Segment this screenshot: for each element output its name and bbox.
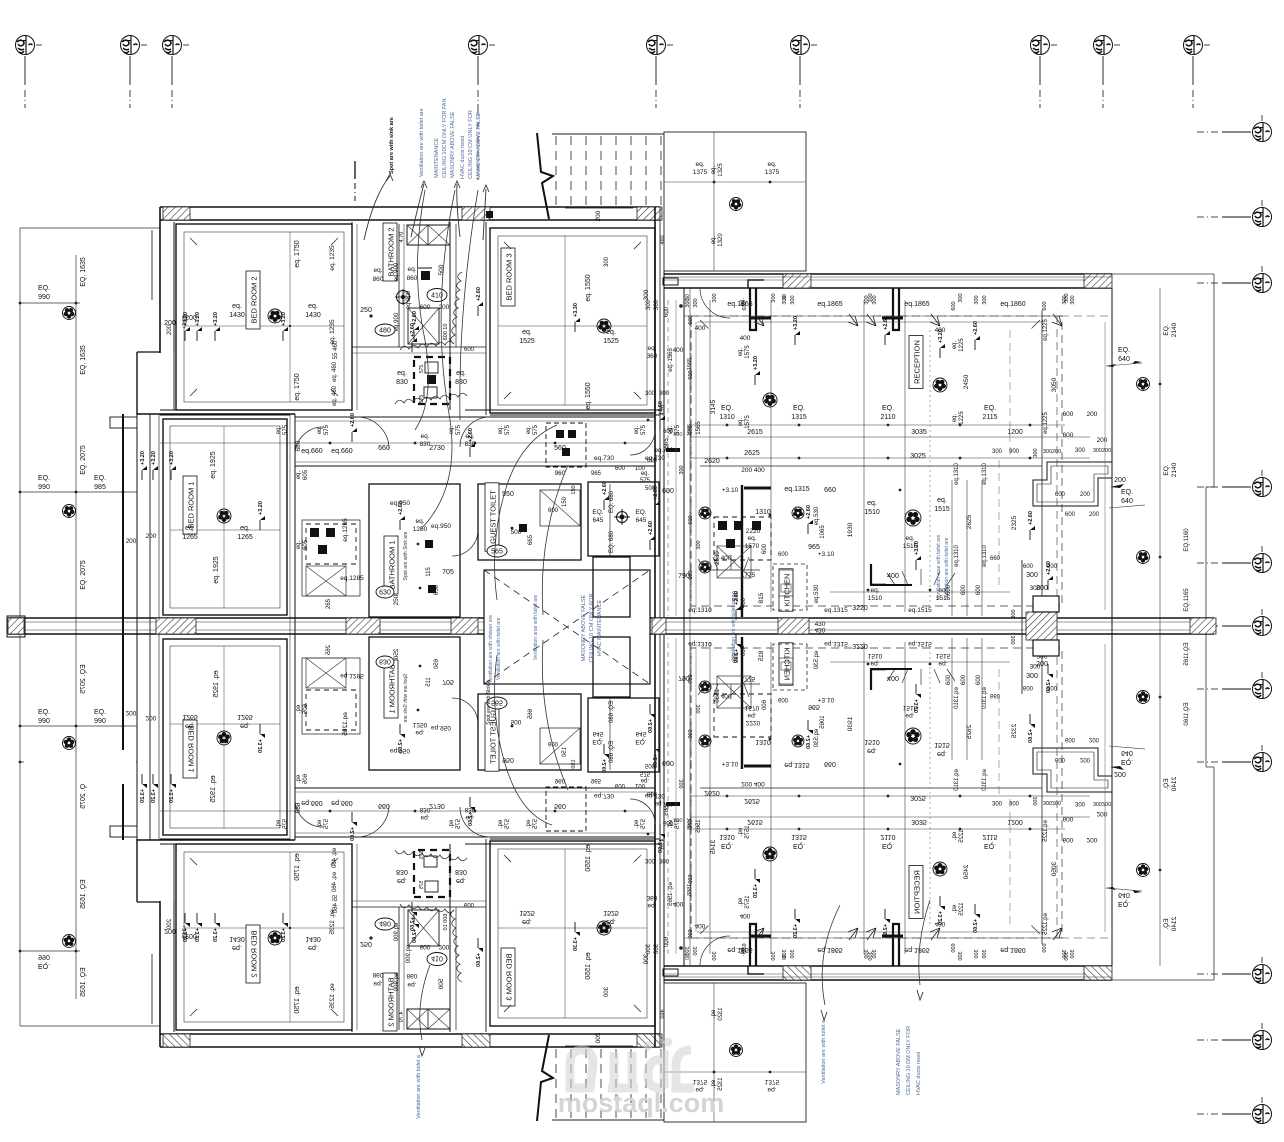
svg-text:300: 300 xyxy=(790,295,796,304)
svg-text:600: 600 xyxy=(946,584,952,595)
svg-text:eq.1865: eq.1865 xyxy=(904,301,929,308)
svg-text:+2.60: +2.60 xyxy=(476,287,482,301)
svg-text:eq.: eq. xyxy=(867,500,877,507)
svg-text:200: 200 xyxy=(1080,492,1091,498)
svg-text:600: 600 xyxy=(420,304,431,311)
svg-text:1515: 1515 xyxy=(934,506,950,513)
svg-text:eq.660: eq.660 xyxy=(301,448,323,455)
svg-text:eq.1315: eq.1315 xyxy=(784,486,809,493)
svg-text:eq.530: eq.530 xyxy=(814,506,820,525)
svg-text:+2.60: +2.60 xyxy=(648,521,654,535)
svg-text:300: 300 xyxy=(982,295,988,304)
svg-text:Ventilation are with toilet a: Ventilation are with toilet a xyxy=(821,1019,827,1084)
svg-text:300: 300 xyxy=(685,298,691,307)
svg-text:2625: 2625 xyxy=(744,450,760,457)
svg-text:eq.: eq. xyxy=(747,535,756,542)
svg-text:1265: 1265 xyxy=(237,534,253,541)
svg-text:990: 990 xyxy=(38,718,50,725)
svg-text:Ventilation are with toilet a: Ventilation are with toilet a xyxy=(416,1054,422,1119)
svg-text:660: 660 xyxy=(990,556,1001,562)
svg-text:+2.60: +2.60 xyxy=(1028,511,1034,525)
svg-text:+2.60: +2.60 xyxy=(973,321,979,335)
svg-text:EQ.: EQ. xyxy=(38,285,50,292)
svg-text:eq. 1925: eq. 1925 xyxy=(210,451,217,478)
svg-text:KITCHEN: KITCHEN xyxy=(783,574,792,607)
svg-text:+2.60: +2.60 xyxy=(410,323,416,337)
svg-text:600: 600 xyxy=(688,515,694,524)
svg-text:eq.: eq. xyxy=(498,425,504,434)
svg-text:EQ.: EQ. xyxy=(1163,324,1170,335)
svg-text:eq.: eq. xyxy=(937,497,947,504)
svg-text:EQ.: EQ. xyxy=(721,405,733,412)
svg-text:eq.1515: eq.1515 xyxy=(908,607,932,614)
svg-text:eq.1310: eq.1310 xyxy=(982,545,988,567)
svg-text:EQ.: EQ. xyxy=(793,405,805,412)
svg-text:250: 250 xyxy=(360,307,372,314)
svg-text:300: 300 xyxy=(992,449,1003,455)
svg-text:600: 600 xyxy=(688,425,694,434)
svg-text:eq.730: eq.730 xyxy=(655,448,674,454)
svg-text:200 400: 200 400 xyxy=(741,467,765,474)
svg-text:+2.60: +2.60 xyxy=(1046,561,1052,575)
svg-text:1430: 1430 xyxy=(305,312,321,319)
svg-text:645: 645 xyxy=(593,517,604,524)
svg-text:eq.: eq. xyxy=(232,303,242,310)
svg-text:600: 600 xyxy=(688,370,694,379)
svg-text:eq.1225: eq.1225 xyxy=(1043,319,1049,341)
svg-text:eq.: eq. xyxy=(905,535,914,542)
svg-text:300: 300 xyxy=(872,295,878,304)
svg-text:EQ. 2075: EQ. 2075 xyxy=(80,560,87,590)
svg-text:1510: 1510 xyxy=(868,595,883,602)
svg-text:EQ. 680: EQ. 680 xyxy=(609,530,615,553)
svg-text:eq.: eq. xyxy=(767,161,776,168)
svg-text:EQ. 680: EQ. 680 xyxy=(609,490,615,513)
svg-text:+2.60: +2.60 xyxy=(602,481,608,495)
svg-text:300200: 300200 xyxy=(1043,449,1061,455)
svg-text:1200: 1200 xyxy=(1007,429,1023,436)
svg-text:CEILING 10CM ONLY FOR FAN: CEILING 10CM ONLY FOR FAN xyxy=(442,98,448,178)
svg-text:EQ. 2075: EQ. 2075 xyxy=(80,445,87,475)
svg-text:1320: 1320 xyxy=(718,233,724,247)
svg-text:eq. 460: eq. 460 xyxy=(332,361,338,382)
svg-text:600: 600 xyxy=(976,674,982,685)
svg-text:200: 200 xyxy=(1087,411,1098,418)
svg-text:eq.: eq. xyxy=(240,525,250,532)
svg-text:+3.10: +3.10 xyxy=(722,487,739,494)
svg-text:2620: 2620 xyxy=(704,458,720,465)
svg-text:eq.: eq. xyxy=(526,425,532,434)
svg-text:1565: 1565 xyxy=(696,421,702,435)
svg-text:300: 300 xyxy=(604,256,610,267)
svg-text:575: 575 xyxy=(505,424,511,435)
svg-text:990: 990 xyxy=(38,484,50,491)
svg-text:HVAC MAINTENANCE: HVAC MAINTENANCE xyxy=(597,599,603,656)
svg-text:300: 300 xyxy=(654,299,660,310)
svg-text:eq.900: eq.900 xyxy=(394,262,400,281)
svg-text:1310: 1310 xyxy=(719,414,735,421)
svg-text:200: 200 xyxy=(439,304,450,311)
svg-text:+2.60: +2.60 xyxy=(412,311,418,325)
svg-text:2450: 2450 xyxy=(963,374,970,389)
svg-text:660: 660 xyxy=(824,487,836,494)
svg-text:eq.1310: eq.1310 xyxy=(954,545,960,567)
svg-text:600: 600 xyxy=(688,315,694,324)
svg-text:eq.: eq. xyxy=(456,370,466,377)
svg-text:Spot are with sink are: Spot are with sink are xyxy=(389,117,395,174)
svg-text:eq.: eq. xyxy=(185,525,195,532)
svg-text:300: 300 xyxy=(693,298,699,307)
svg-text:2140: 2140 xyxy=(1171,462,1178,477)
svg-text:1575: 1575 xyxy=(745,415,751,429)
svg-text:+3.20: +3.20 xyxy=(281,312,287,326)
svg-text:300: 300 xyxy=(1070,295,1076,304)
svg-text:600 10: 600 10 xyxy=(443,324,449,341)
svg-text:EQ.: EQ. xyxy=(1163,464,1170,475)
svg-text:600: 600 xyxy=(961,674,967,685)
svg-text:200: 200 xyxy=(167,324,173,335)
svg-text:200: 200 xyxy=(1114,477,1126,484)
svg-text:eq. 1750: eq. 1750 xyxy=(294,373,301,400)
svg-text:150: 150 xyxy=(562,496,568,507)
svg-text:265: 265 xyxy=(326,598,332,609)
svg-text:575: 575 xyxy=(324,424,330,435)
svg-text:1225: 1225 xyxy=(959,411,965,425)
svg-text:eq.1310: eq.1310 xyxy=(982,463,988,485)
svg-text:2615: 2615 xyxy=(747,429,763,436)
svg-text:eq.: eq. xyxy=(308,303,318,310)
svg-text:MASONRY ABOVE FALSE: MASONRY ABOVE FALSE xyxy=(476,112,482,179)
svg-text:EQ.: EQ. xyxy=(635,509,646,516)
svg-text:eq.: eq. xyxy=(373,267,382,274)
svg-text:EQ.: EQ. xyxy=(38,709,50,716)
svg-text:605: 605 xyxy=(303,469,309,480)
svg-text:EQ.: EQ. xyxy=(1118,347,1130,354)
svg-text:300: 300 xyxy=(1011,609,1017,618)
svg-text:360: 360 xyxy=(647,353,658,360)
svg-text:1515: 1515 xyxy=(903,543,918,550)
svg-text:200: 200 xyxy=(1089,512,1100,518)
svg-text:460: 460 xyxy=(660,235,666,244)
svg-text:4.70: 4.70 xyxy=(399,232,405,243)
svg-text:MASONRY ABOVE FALSE: MASONRY ABOVE FALSE xyxy=(581,594,587,661)
svg-text:3035: 3035 xyxy=(911,429,927,436)
svg-text:eq.: eq. xyxy=(738,347,744,356)
svg-text:600: 600 xyxy=(946,674,952,685)
svg-text:600: 600 xyxy=(688,570,694,579)
svg-text:3145: 3145 xyxy=(710,399,717,414)
svg-text:300: 300 xyxy=(646,299,652,310)
svg-text:600: 600 xyxy=(664,306,670,317)
svg-text:eq.: eq. xyxy=(407,266,416,273)
svg-text:900: 900 xyxy=(1009,449,1020,455)
svg-text:eq.: eq. xyxy=(522,329,532,336)
svg-text:eq.: eq. xyxy=(952,340,958,349)
svg-text:+3.10: +3.10 xyxy=(818,551,835,558)
svg-text:+2.60: +2.60 xyxy=(398,501,404,515)
svg-text:eq.: eq. xyxy=(420,433,429,440)
svg-text:EQ.1160: EQ.1160 xyxy=(1184,528,1190,552)
svg-text:815: 815 xyxy=(758,592,765,603)
svg-text:565: 565 xyxy=(491,549,503,556)
svg-text:400: 400 xyxy=(695,325,706,332)
svg-text:EQ.: EQ. xyxy=(592,509,603,516)
svg-text:640: 640 xyxy=(1121,498,1133,505)
svg-text:eq.: eq. xyxy=(952,413,958,422)
svg-text:eq.1225: eq.1225 xyxy=(1043,412,1049,434)
svg-text:MAINTENANCE: MAINTENANCE xyxy=(434,138,440,178)
svg-text:640: 640 xyxy=(1118,356,1130,363)
svg-text:+3.20: +3.20 xyxy=(213,312,219,326)
svg-text:eq.: eq. xyxy=(296,470,302,479)
svg-text:115: 115 xyxy=(426,567,432,577)
svg-text:990: 990 xyxy=(94,718,106,725)
svg-text:eq.: eq. xyxy=(738,417,744,426)
svg-text:eq.: eq. xyxy=(296,540,302,549)
svg-text:575: 575 xyxy=(641,424,647,435)
svg-text:BATHROOM 1: BATHROOM 1 xyxy=(388,540,397,589)
svg-text:2140: 2140 xyxy=(1171,322,1178,337)
svg-text:Ventilation are with toilet ar: Ventilation are with toilet are xyxy=(496,617,502,680)
svg-text:eq.: eq. xyxy=(449,425,455,434)
svg-text:eq.1310: eq.1310 xyxy=(954,463,960,485)
svg-text:300: 300 xyxy=(771,293,777,302)
svg-text:+3.20: +3.20 xyxy=(753,356,759,370)
svg-text:EQ.1165: EQ.1165 xyxy=(1184,588,1190,612)
svg-text:600: 600 xyxy=(778,552,789,558)
svg-text:645: 645 xyxy=(636,517,647,524)
svg-text:+3.20: +3.20 xyxy=(169,451,175,465)
svg-text:300: 300 xyxy=(1026,673,1038,680)
svg-text:+3.20: +3.20 xyxy=(793,316,799,330)
svg-text:600: 600 xyxy=(647,458,658,464)
svg-text:Spot are with Strik a: Spot are with Strik a xyxy=(486,680,492,725)
svg-text:630: 630 xyxy=(379,590,391,597)
svg-text:eq.1865: eq.1865 xyxy=(817,301,842,308)
svg-text:600: 600 xyxy=(1055,492,1066,498)
svg-text:200: 200 xyxy=(1036,585,1048,592)
svg-text:300: 300 xyxy=(643,289,650,300)
svg-text:600: 600 xyxy=(615,466,626,472)
svg-text:575: 575 xyxy=(456,424,462,435)
svg-text:eq.: eq. xyxy=(870,587,879,594)
svg-text:600: 600 xyxy=(976,584,982,595)
svg-text:2115: 2115 xyxy=(982,414,997,421)
svg-text:mostaql.com: mostaql.com xyxy=(558,1088,725,1118)
svg-text:MASONRY ABOVE FALSE: MASONRY ABOVE FALSE xyxy=(896,1028,902,1095)
svg-text:1525: 1525 xyxy=(519,338,535,345)
svg-text:eq. 1750: eq. 1750 xyxy=(294,240,301,267)
svg-text:300: 300 xyxy=(645,391,656,397)
svg-text:1575: 1575 xyxy=(745,345,751,359)
svg-text:Ventilation arae with toilet a: Ventilation arae with toilet are xyxy=(533,594,539,660)
svg-text:300: 300 xyxy=(958,293,964,302)
svg-text:eq. 1550: eq. 1550 xyxy=(585,274,592,301)
svg-text:665: 665 xyxy=(528,534,534,545)
svg-text:eq.1310: eq.1310 xyxy=(688,607,712,614)
svg-text:55 460: 55 460 xyxy=(333,340,339,359)
svg-text:+2.60: +2.60 xyxy=(653,486,659,500)
svg-text:Ventilation are with shower ar: Ventilation are with shower are xyxy=(488,615,494,683)
svg-text:660: 660 xyxy=(378,445,390,452)
svg-text:+3.20: +3.20 xyxy=(182,315,188,329)
svg-text:eq.730: eq.730 xyxy=(594,455,614,462)
svg-text:eq. 1235: eq. 1235 xyxy=(329,319,336,345)
svg-text:Ventilation are with toilet ar: Ventilation are with toilet are xyxy=(419,108,425,177)
svg-text:+3.20: +3.20 xyxy=(195,312,201,326)
svg-text:eq.: eq. xyxy=(695,161,704,168)
svg-text:eq.: eq. xyxy=(276,425,282,434)
svg-text:600: 600 xyxy=(1042,301,1048,310)
svg-text:1375: 1375 xyxy=(693,169,708,176)
svg-text:200: 200 xyxy=(146,533,157,540)
svg-text:200: 200 xyxy=(595,210,602,221)
svg-text:eq.950: eq.950 xyxy=(431,523,451,530)
svg-text:3220: 3220 xyxy=(852,605,868,612)
svg-text:eq.: eq. xyxy=(668,425,674,434)
svg-text:400: 400 xyxy=(673,347,684,354)
svg-text:eq.: eq. xyxy=(711,235,717,244)
svg-text:Ventilation arae with toilet a: Ventilation arae with toilet are xyxy=(936,534,942,600)
svg-text:HVAC ducts need: HVAC ducts need xyxy=(460,136,466,179)
svg-text:600: 600 xyxy=(742,301,748,310)
svg-text:+3.20: +3.20 xyxy=(151,451,157,465)
svg-text:EQ.: EQ. xyxy=(94,475,106,482)
svg-text:CEILING 10 DM ONLY FOR: CEILING 10 DM ONLY FOR xyxy=(906,1026,912,1095)
svg-text:400: 400 xyxy=(741,597,747,608)
svg-text:1265: 1265 xyxy=(182,534,198,541)
svg-text:1310: 1310 xyxy=(755,509,771,516)
svg-text:EQ.: EQ. xyxy=(984,405,996,412)
svg-text:400: 400 xyxy=(721,555,732,562)
svg-text:100: 100 xyxy=(635,466,646,472)
svg-text:300: 300 xyxy=(712,293,718,302)
svg-text:600: 600 xyxy=(1063,432,1074,439)
svg-text:EQ.: EQ. xyxy=(94,709,106,716)
svg-text:eq.1860: eq.1860 xyxy=(1000,301,1025,308)
svg-text:4.20: 4.20 xyxy=(660,405,666,416)
svg-text:1510: 1510 xyxy=(864,509,880,516)
svg-text:3025: 3025 xyxy=(910,453,926,460)
svg-text:1430: 1430 xyxy=(229,312,245,319)
svg-text:965: 965 xyxy=(591,471,602,477)
svg-text:eq. 1235: eq. 1235 xyxy=(329,245,336,271)
svg-text:830: 830 xyxy=(396,379,408,386)
svg-text:eq.: eq. xyxy=(397,370,407,377)
svg-text:BED ROOM 1: BED ROOM 1 xyxy=(187,481,196,528)
svg-text:1065: 1065 xyxy=(820,525,826,539)
svg-text:EQ.: EQ. xyxy=(882,405,894,412)
svg-text:600: 600 xyxy=(464,347,475,353)
svg-text:eq.: eq. xyxy=(606,329,616,336)
svg-text:575: 575 xyxy=(419,365,425,374)
svg-text:BED ROOM 2: BED ROOM 2 xyxy=(250,276,259,323)
svg-text:705: 705 xyxy=(442,569,454,576)
svg-text:+2.60: +2.60 xyxy=(806,505,812,519)
svg-text:985: 985 xyxy=(94,484,106,491)
svg-text:990: 990 xyxy=(38,294,50,301)
svg-text:600: 600 xyxy=(951,301,957,310)
svg-text:eq.1265: eq.1265 xyxy=(342,518,349,542)
svg-text:575: 575 xyxy=(675,424,681,435)
svg-text:300: 300 xyxy=(1062,295,1068,304)
svg-text:+3.30: +3.30 xyxy=(573,303,579,317)
svg-text:CEILING 10 CM ONLY FOR: CEILING 10 CM ONLY FOR xyxy=(468,110,474,179)
svg-text:300: 300 xyxy=(1033,448,1039,457)
svg-text:300: 300 xyxy=(679,465,685,474)
svg-text:eq.: eq. xyxy=(634,425,640,434)
svg-text:EQ.: EQ. xyxy=(38,475,50,482)
svg-text:575: 575 xyxy=(283,424,289,435)
svg-text:600: 600 xyxy=(1065,512,1076,518)
svg-text:575: 575 xyxy=(640,478,651,484)
svg-text:eq.: eq. xyxy=(711,165,717,174)
svg-text:eq.1315: eq.1315 xyxy=(824,607,848,614)
svg-text:+2.60: +2.60 xyxy=(468,428,474,442)
svg-text:400: 400 xyxy=(740,335,751,342)
svg-text:300: 300 xyxy=(974,295,980,304)
svg-text:1775: 1775 xyxy=(741,572,756,579)
svg-text:+2.60: +2.60 xyxy=(350,413,356,427)
svg-text:200: 200 xyxy=(1097,437,1108,444)
svg-text:CEILING 10 CM ONLY FOR: CEILING 10 CM ONLY FOR xyxy=(589,594,595,663)
svg-text:300: 300 xyxy=(864,295,870,304)
svg-text:1325: 1325 xyxy=(718,163,724,177)
svg-text:250: 250 xyxy=(393,594,400,605)
svg-text:300: 300 xyxy=(696,540,702,549)
svg-text:575: 575 xyxy=(533,424,539,435)
svg-text:600: 600 xyxy=(762,543,768,554)
svg-text:600: 600 xyxy=(961,584,967,595)
svg-text:2730: 2730 xyxy=(429,445,445,452)
svg-text:eq. 460: eq. 460 xyxy=(332,385,338,406)
svg-text:200: 200 xyxy=(126,538,137,545)
svg-text:600: 600 xyxy=(548,508,559,514)
svg-text:+3.20: +3.20 xyxy=(938,329,944,343)
svg-text:Spot are with Sink are: Spot are with Sink are xyxy=(403,531,409,580)
svg-text:RECEPTION: RECEPTION xyxy=(913,340,922,384)
svg-text:480: 480 xyxy=(379,328,391,335)
svg-text:300200: 300200 xyxy=(1093,448,1111,454)
svg-text:300: 300 xyxy=(782,295,788,304)
svg-text:HVAC ducts need: HVAC ducts need xyxy=(916,1052,922,1095)
svg-text:EQ. 1635: EQ. 1635 xyxy=(80,257,87,287)
svg-text:965: 965 xyxy=(808,544,820,551)
svg-text:eq.1285: eq.1285 xyxy=(340,575,364,582)
svg-text:+3.20: +3.20 xyxy=(258,501,264,515)
svg-text:1225: 1225 xyxy=(959,338,965,352)
svg-text:EQ. 1635: EQ. 1635 xyxy=(80,345,87,375)
svg-text:eq. 1925: eq. 1925 xyxy=(213,556,220,583)
svg-text:eq.530: eq.530 xyxy=(814,584,820,603)
svg-text:860: 860 xyxy=(373,276,384,283)
svg-text:200: 200 xyxy=(1036,661,1048,668)
svg-text:eq.: eq. xyxy=(415,518,424,525)
svg-text:1525: 1525 xyxy=(603,338,619,345)
svg-text:860: 860 xyxy=(407,275,418,282)
svg-text:300: 300 xyxy=(1075,448,1086,454)
svg-text:150: 150 xyxy=(571,485,577,494)
svg-text:1375: 1375 xyxy=(765,169,780,176)
svg-text:EQ.: EQ. xyxy=(1121,489,1133,496)
svg-text:1315: 1315 xyxy=(791,414,807,421)
svg-text:1570: 1570 xyxy=(745,543,760,550)
svg-text:600: 600 xyxy=(1063,411,1074,418)
svg-text:Ventilation are with toilet ar: Ventilation are with toilet are xyxy=(731,597,737,660)
svg-text:1930: 1930 xyxy=(847,522,854,537)
svg-text:eq. 1550: eq. 1550 xyxy=(585,382,592,409)
svg-text:300: 300 xyxy=(1026,572,1038,579)
